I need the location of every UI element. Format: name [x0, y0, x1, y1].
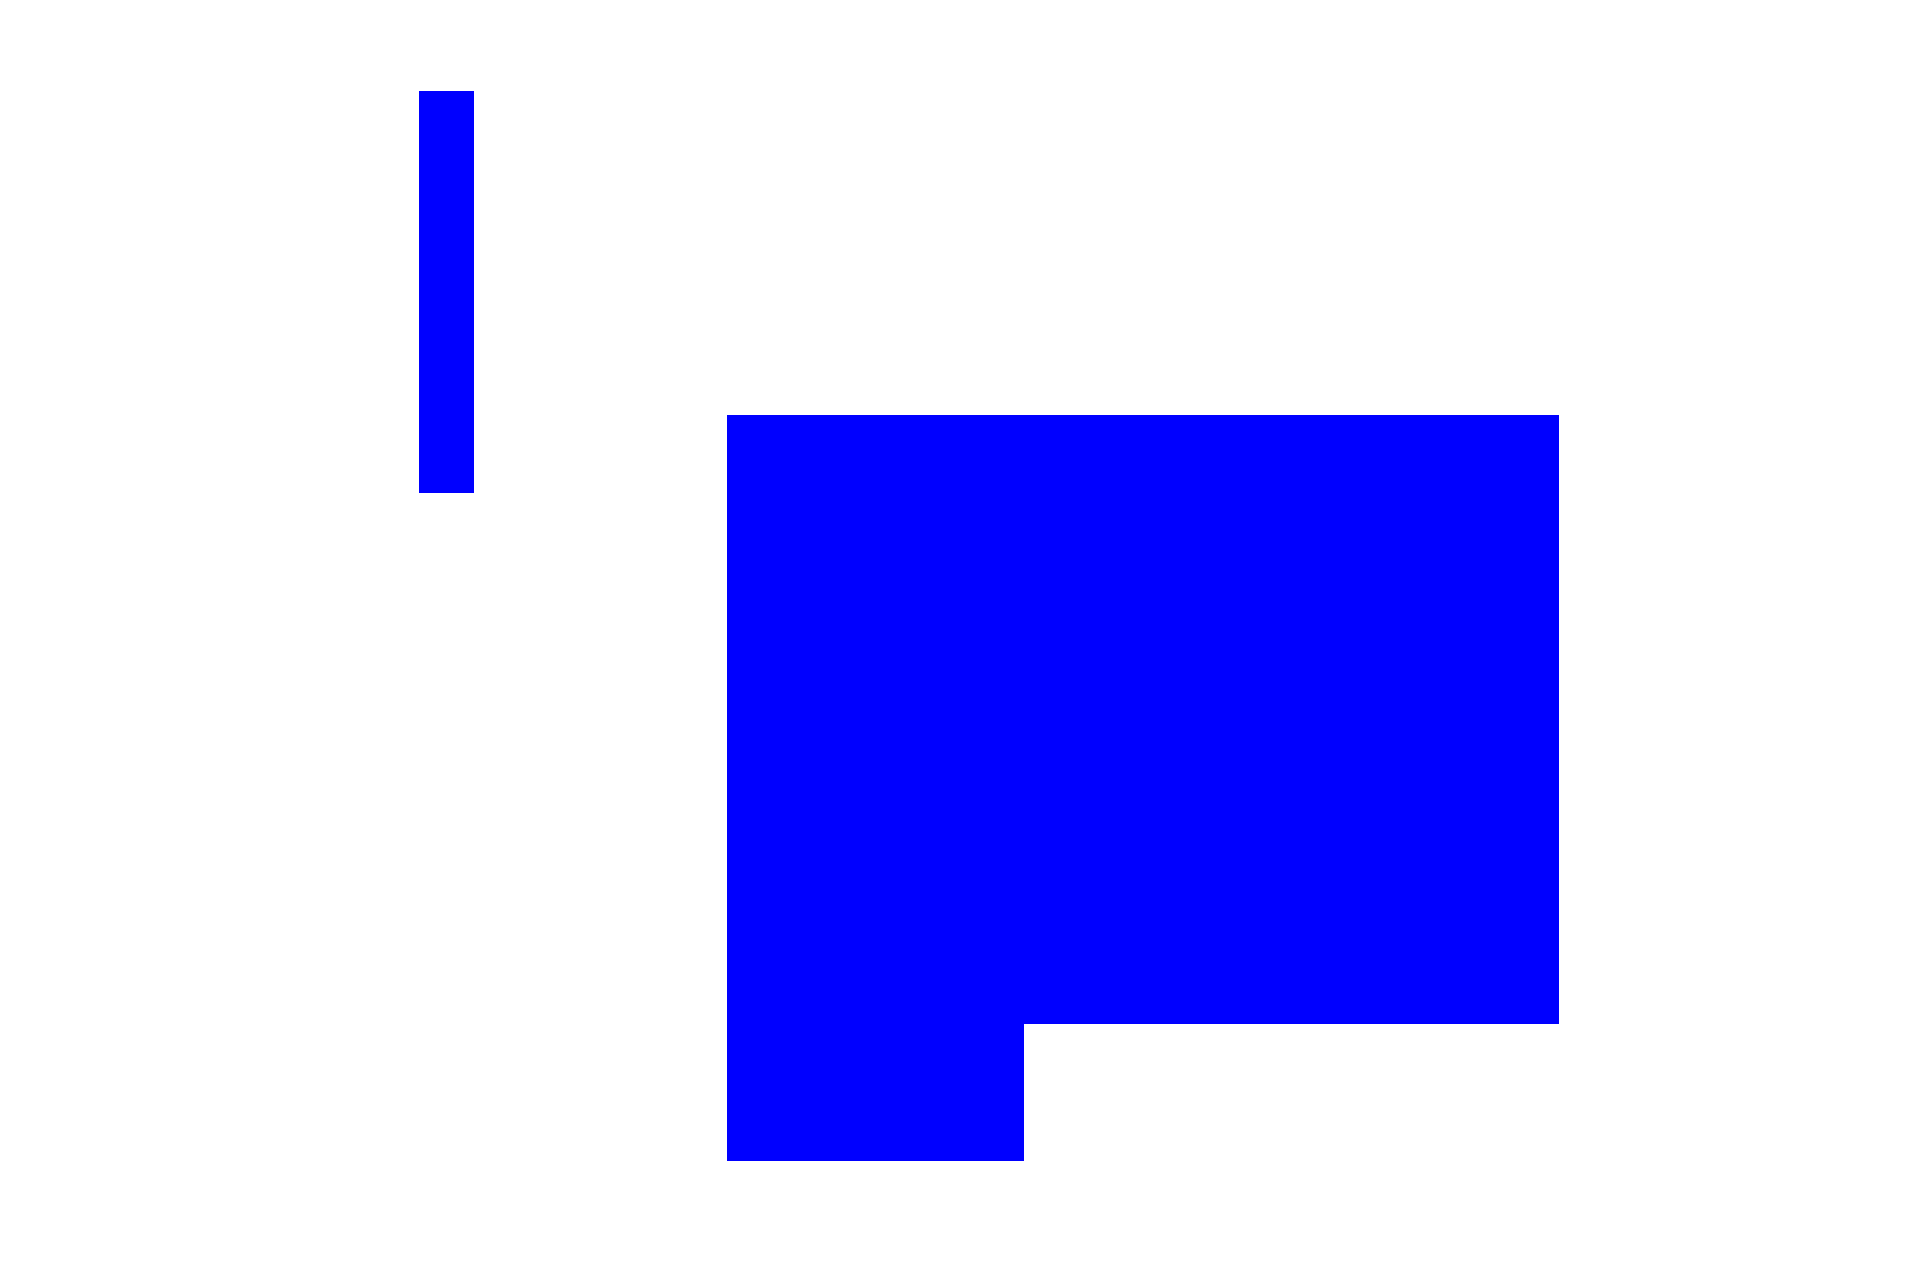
blue vertical bar: [419, 91, 474, 493]
blue L-shaped block: main rectangle: [727, 415, 1559, 1024]
blue L-shaped block: lower-left leg: [727, 1024, 1024, 1161]
